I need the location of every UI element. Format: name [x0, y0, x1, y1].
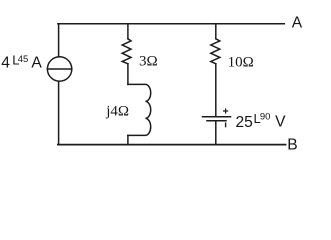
voltage source V1 = 25∠90 V (battery plates) [203, 117, 231, 121]
wire right branch top (top bus to 10Ω) [215, 24, 217, 39]
svg-text:45: 45 [18, 54, 29, 65]
resistor R1 3Ω [122, 39, 131, 64]
svg-text:90: 90 [260, 112, 271, 123]
svg-text:3Ω: 3Ω [139, 54, 158, 70]
svg-text:B: B [287, 137, 297, 154]
voltage source polarity plus sign [224, 109, 228, 113]
wire middle branch (3Ω to inductor) [127, 64, 129, 85]
resistor R2 10Ω [211, 39, 220, 64]
svg-text:V: V [275, 114, 286, 131]
voltage source polarity minus tick [225, 123, 227, 126]
svg-text:j4Ω: j4Ω [105, 103, 129, 119]
wire right branch middle (10Ω to voltage source) [215, 64, 217, 116]
svg-text:25: 25 [236, 114, 254, 131]
wire right branch bottom (voltage source to bottom bus) [215, 121, 217, 144]
wire bottom bus (node B rail) [58, 144, 286, 146]
wire left branch upper (top bus to current source) [58, 24, 60, 57]
wire middle branch bottom (inductor to bottom bus) [127, 135, 129, 144]
svg-text:10Ω: 10Ω [228, 54, 254, 70]
svg-text:4: 4 [1, 55, 10, 72]
svg-text:A: A [292, 15, 303, 32]
label source current 4∠45 A [1, 52, 42, 71]
current source I1 = 4∠45 A [47, 57, 71, 81]
label source voltage 25∠90 V [236, 111, 287, 131]
inductor L1 j4Ω [128, 84, 151, 135]
wire top bus (node A rail) [58, 23, 284, 25]
wire middle branch top (top bus to 3Ω) [127, 24, 129, 39]
svg-text:A: A [31, 55, 42, 72]
wire left branch lower (current source to bottom bus) [58, 81, 60, 144]
